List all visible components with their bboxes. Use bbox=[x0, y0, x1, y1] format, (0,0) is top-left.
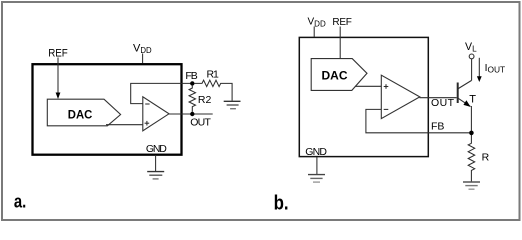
svg-text:FB: FB bbox=[431, 120, 444, 132]
svg-text:OUT: OUT bbox=[431, 97, 455, 109]
svg-text:OUT: OUT bbox=[190, 117, 211, 129]
svg-text:IOUT: IOUT bbox=[485, 63, 506, 75]
svg-text:R2: R2 bbox=[198, 94, 212, 106]
svg-text:GND: GND bbox=[305, 146, 327, 158]
svg-text:T: T bbox=[469, 94, 476, 106]
svg-text:DAC: DAC bbox=[68, 108, 93, 121]
svg-text:R1: R1 bbox=[207, 68, 220, 80]
svg-text:b.: b. bbox=[274, 193, 289, 215]
svg-text:R: R bbox=[482, 152, 490, 164]
svg-text:GND: GND bbox=[146, 143, 167, 155]
svg-text:REF: REF bbox=[332, 17, 351, 28]
svg-text:a.: a. bbox=[14, 191, 26, 212]
svg-text:FB: FB bbox=[185, 70, 197, 82]
svg-text:DAC: DAC bbox=[322, 71, 348, 83]
svg-text:REF: REF bbox=[48, 47, 68, 59]
